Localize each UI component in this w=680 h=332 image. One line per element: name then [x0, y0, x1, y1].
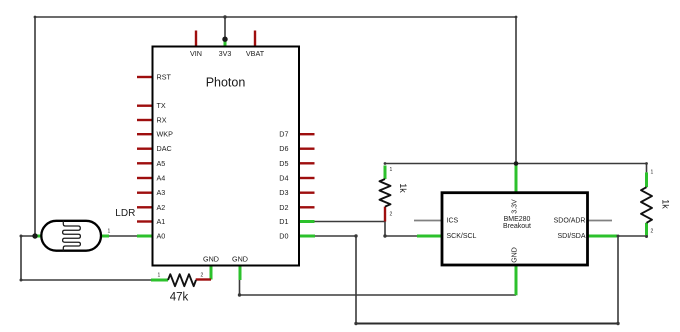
svg-text:1k: 1k [661, 199, 671, 209]
LDR R2 body [41, 221, 101, 251]
svg-text:GND: GND [203, 254, 219, 263]
BME GND pin lead [515, 265, 518, 295]
green connected pin stubs [35, 40, 647, 296]
end right 1k bottom [645, 235, 648, 238]
bend top-right [515, 16, 518, 19]
pin A3 [137, 191, 153, 193]
svg-text:VIN: VIN [190, 49, 202, 58]
junction LDR node [32, 233, 37, 238]
BME280 breakout U2 body [442, 193, 588, 265]
junction SDI node [617, 235, 620, 238]
LDR left lead [35, 235, 42, 238]
pin RX [137, 119, 153, 121]
svg-text:D2: D2 [279, 203, 288, 212]
svg-text:2: 2 [651, 229, 654, 235]
bend left 1k top [384, 162, 387, 165]
svg-text:2: 2 [390, 212, 393, 218]
pin VIN [195, 31, 197, 47]
Photon top/bottom pin labels [190, 49, 265, 263]
pin A1 [137, 220, 153, 222]
svg-text:A1: A1 [157, 217, 166, 226]
wire: GND2 to BME GND [240, 280, 517, 295]
svg-text:D0: D0 [279, 232, 288, 241]
op Photon U1 body [153, 47, 300, 266]
wire: D0 to SDI/SDA long route [315, 236, 647, 324]
wire: left vertical from top rail to LDR node [34, 17, 36, 236]
bend SDI route bottom [616, 322, 619, 325]
svg-text:1: 1 [108, 229, 111, 235]
svg-text:RST: RST [157, 73, 172, 82]
3V3 pin stub [224, 40, 227, 47]
left 1k bottom lead (red) [384, 207, 386, 222]
svg-text:A4: A4 [157, 174, 166, 183]
pin D5 [299, 162, 315, 164]
pin D4 [299, 177, 315, 179]
svg-text:1k: 1k [398, 183, 408, 193]
pin VBAT [254, 31, 256, 47]
svg-text:A5: A5 [157, 159, 166, 168]
svg-text:GND: GND [232, 254, 248, 263]
svg-text:A0: A0 [157, 232, 166, 241]
bend right 1k top [645, 162, 648, 165]
pin SDO/ADR stub [588, 220, 613, 222]
junction 3V3 top rail [223, 15, 226, 18]
svg-text:RX: RX [157, 116, 167, 125]
right 1k bottom lead [645, 223, 648, 237]
svg-text:BME280: BME280 [504, 216, 531, 223]
svg-text:SDO/ADR: SDO/ADR [554, 218, 586, 225]
svg-text:ICS: ICS [447, 218, 459, 225]
pin D3 [299, 191, 315, 193]
resistor R3 1k left body [380, 179, 391, 207]
svg-text:47k: 47k [170, 292, 189, 304]
svg-text:1: 1 [390, 167, 393, 173]
pin end dot 3V3 [222, 37, 227, 42]
svg-text:Photon: Photon [206, 76, 246, 90]
wire: horizontal 3.3V net between 1k resistors [385, 163, 647, 165]
svg-text:D3: D3 [279, 188, 288, 197]
svg-text:WKP: WKP [157, 130, 174, 139]
bend GND2 [238, 293, 241, 296]
D0 pin stub [299, 235, 315, 238]
resistor R4 1k right body [641, 187, 652, 223]
resistor R1 47k body [168, 274, 196, 286]
wire: D1 to left 1k resistor and SCK/SCL [315, 222, 418, 237]
LDR serpentine [63, 221, 81, 251]
GND2 pin stub [239, 266, 242, 281]
wire: right vertical from top rail to 3.3V node [515, 17, 517, 164]
svg-text:TX: TX [157, 101, 166, 110]
pin D7 [299, 133, 315, 135]
wire: LDR to A0 middle segment [109, 235, 137, 237]
pin D6 [299, 147, 315, 149]
svg-text:3.3V: 3.3V [511, 199, 518, 214]
BME pin labels [447, 199, 586, 263]
red unconnected pin stubs [137, 31, 385, 280]
resistor R1 47k right lead (red) [196, 278, 211, 280]
pin DAC [137, 147, 153, 149]
bend left [20, 235, 23, 238]
svg-text:Breakout: Breakout [503, 223, 531, 230]
pin A2 [137, 206, 153, 208]
wire: top horizontal rail [35, 16, 516, 18]
svg-text:SCK/SCL: SCK/SCL [447, 233, 477, 240]
pin WKP [137, 133, 153, 135]
svg-text:D6: D6 [279, 144, 288, 153]
svg-text:DAC: DAC [157, 144, 172, 153]
tiny pin numbers [108, 167, 654, 279]
svg-text:1: 1 [651, 170, 654, 176]
svg-text:3V3: 3V3 [219, 49, 232, 58]
SDI/SDA pin stub [588, 235, 618, 238]
pin RST [137, 76, 153, 78]
wire: 3V3 pin to top rail [224, 17, 226, 39]
bend D0 route bottom [354, 322, 357, 325]
GND1 pin stub [210, 266, 213, 280]
pin ICS stub [414, 220, 442, 222]
bend top-left [34, 16, 37, 19]
right 1k top lead green part [645, 172, 648, 187]
wire: right 1k top lead upper part [646, 164, 648, 173]
svg-text:D5: D5 [279, 159, 288, 168]
svg-text:A3: A3 [157, 188, 166, 197]
svg-text:D4: D4 [279, 174, 288, 183]
bend SCK route [383, 234, 386, 237]
Photon right pin labels [279, 130, 288, 241]
Photon left pin labels [157, 73, 174, 241]
pin D2 [299, 206, 315, 208]
node A0 green stub [137, 235, 153, 238]
SCK/SCL pin stub [417, 235, 442, 238]
svg-text:VBAT: VBAT [246, 49, 265, 58]
BME280 title [503, 216, 531, 230]
47k left lead [151, 279, 168, 282]
svg-text:SDI/SDA: SDI/SDA [557, 233, 585, 240]
junction 3.3V node [514, 161, 519, 166]
wire: D0 route bottom run [356, 323, 618, 325]
BME 3.3V pin lead [515, 166, 518, 193]
svg-text:LDR: LDR [115, 208, 135, 219]
svg-text:A2: A2 [157, 203, 166, 212]
pin TX [137, 104, 153, 106]
grey unconnected BME stubs [414, 220, 612, 222]
bend lower-left [20, 279, 23, 282]
pin A4 [137, 177, 153, 179]
svg-text:D7: D7 [279, 130, 288, 139]
bend D0 route top [354, 234, 357, 237]
svg-text:GND: GND [511, 247, 518, 263]
pin A5 [137, 162, 153, 164]
LDR right lead [101, 235, 109, 238]
svg-text:1: 1 [158, 273, 161, 279]
svg-text:D1: D1 [279, 217, 288, 226]
left 1k top lead [384, 166, 387, 180]
wire: LDR node to lower-left corner [21, 236, 151, 280]
svg-text:2: 2 [201, 273, 204, 279]
D1 pin stub [299, 220, 315, 223]
